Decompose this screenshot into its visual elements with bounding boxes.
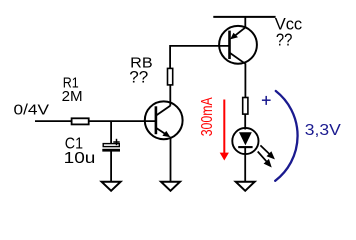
svg-text:10u: 10u: [64, 150, 96, 167]
svg-text:3,3V: 3,3V: [305, 122, 341, 139]
svg-text:2M: 2M: [62, 88, 83, 105]
svg-text:0/4V: 0/4V: [14, 101, 50, 118]
svg-text:300mA: 300mA: [199, 97, 216, 136]
svg-text:??: ??: [129, 69, 148, 87]
svg-text:??: ??: [276, 30, 293, 50]
